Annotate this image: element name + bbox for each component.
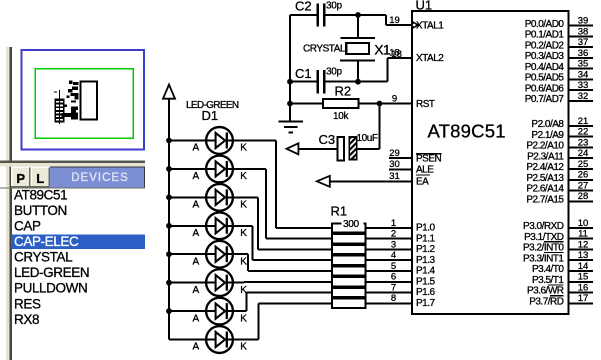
svg-text:38: 38 [578, 26, 589, 37]
svg-text:31: 31 [389, 171, 400, 182]
svg-text:P3.4/T0: P3.4/T0 [532, 264, 564, 275]
svg-text:12: 12 [578, 239, 589, 250]
svg-text:C3: C3 [319, 132, 336, 147]
svg-text:33: 33 [578, 80, 589, 91]
svg-text:P1.5: P1.5 [416, 276, 436, 287]
svg-text:11: 11 [578, 229, 588, 240]
svg-text:37: 37 [578, 37, 589, 48]
svg-text:LED-GREEN: LED-GREEN [14, 265, 89, 280]
svg-text:P1.1: P1.1 [416, 233, 436, 244]
svg-text:A: A [193, 285, 200, 296]
svg-text:RES: RES [14, 296, 41, 311]
svg-text:AT89C51: AT89C51 [14, 187, 67, 202]
svg-text:39: 39 [578, 16, 589, 27]
svg-text:A: A [193, 313, 200, 324]
svg-text:P3.1/TXD: P3.1/TXD [524, 232, 564, 243]
svg-text:XTAL1: XTAL1 [416, 20, 444, 31]
svg-text:CAP-ELEC: CAP-ELEC [14, 234, 79, 249]
svg-text:27: 27 [578, 180, 589, 191]
svg-text:DEVICES: DEVICES [71, 172, 129, 184]
svg-text:U1: U1 [416, 0, 433, 13]
svg-text:P0.1/AD1: P0.1/AD1 [525, 30, 565, 41]
svg-text:CRYSTAL: CRYSTAL [14, 250, 73, 265]
svg-text:R1: R1 [331, 204, 348, 219]
svg-text:K: K [240, 313, 247, 324]
svg-text:C1: C1 [295, 66, 312, 81]
svg-text:P2.3/A11: P2.3/A11 [527, 151, 564, 162]
svg-text:2: 2 [391, 229, 396, 240]
svg-text:25: 25 [578, 159, 589, 170]
svg-text:ALE: ALE [416, 165, 434, 176]
svg-text:P2.6/A14: P2.6/A14 [526, 184, 564, 195]
svg-text:CRYSTAL: CRYSTAL [303, 44, 346, 55]
svg-text:P3.0/RXD: P3.0/RXD [523, 221, 564, 232]
svg-text:4: 4 [391, 250, 396, 261]
svg-text:XTAL2: XTAL2 [416, 53, 444, 64]
svg-text:P0.7/AD7: P0.7/AD7 [525, 94, 565, 105]
svg-text:A: A [193, 143, 200, 154]
svg-text:A: A [193, 228, 200, 239]
svg-text:30p: 30p [326, 1, 343, 12]
svg-text:K: K [240, 171, 247, 182]
svg-text:P0.3/AD3: P0.3/AD3 [525, 51, 565, 62]
svg-text:23: 23 [578, 137, 589, 148]
svg-text:P0.4/AD4: P0.4/AD4 [525, 62, 565, 73]
svg-text:300: 300 [343, 219, 360, 230]
svg-text:22: 22 [578, 127, 589, 138]
svg-text:15: 15 [578, 272, 589, 283]
svg-text:1: 1 [391, 218, 396, 229]
svg-text:18: 18 [389, 48, 400, 59]
svg-text:P0.0/AD0: P0.0/AD0 [525, 19, 565, 30]
svg-text:P0.6/AD6: P0.6/AD6 [525, 83, 565, 94]
svg-text:34: 34 [578, 69, 589, 80]
svg-text:10uF: 10uF [357, 133, 378, 144]
svg-text:6: 6 [391, 272, 396, 283]
svg-text:R2: R2 [335, 83, 352, 98]
svg-text:36: 36 [578, 48, 589, 59]
svg-text:C2: C2 [295, 0, 312, 13]
svg-text:P3.5/T1: P3.5/T1 [532, 275, 564, 286]
svg-text:D1: D1 [202, 108, 219, 123]
svg-text:35: 35 [578, 59, 589, 70]
svg-text:BUTTON: BUTTON [14, 203, 67, 218]
svg-text:9: 9 [392, 93, 397, 104]
svg-text:EA: EA [416, 177, 429, 188]
svg-text:17: 17 [578, 293, 589, 304]
svg-text:P2.2/A10: P2.2/A10 [526, 141, 564, 152]
svg-text:P1.6: P1.6 [416, 287, 436, 298]
svg-text:P2.1/A9: P2.1/A9 [531, 130, 564, 141]
svg-text:P1.0: P1.0 [416, 223, 436, 234]
svg-text:P3.2/INT0: P3.2/INT0 [523, 243, 564, 254]
svg-text:8: 8 [391, 293, 396, 304]
svg-text:10k: 10k [333, 111, 350, 122]
svg-text:RX8: RX8 [14, 312, 39, 327]
svg-text:K: K [240, 228, 247, 239]
svg-text:K: K [240, 200, 247, 211]
svg-text:P3.6/WR: P3.6/WR [527, 286, 564, 297]
svg-text:P2.7/A15: P2.7/A15 [526, 194, 564, 205]
svg-text:16: 16 [578, 282, 589, 293]
svg-text:PULLDOWN: PULLDOWN [14, 281, 87, 296]
svg-text:10: 10 [578, 218, 589, 229]
svg-text:P3.3/INT1: P3.3/INT1 [523, 253, 564, 264]
svg-text:29: 29 [389, 148, 400, 159]
svg-text:P1.2: P1.2 [416, 244, 436, 255]
svg-text:13: 13 [578, 250, 589, 261]
svg-text:K: K [240, 143, 247, 154]
svg-text:P1.3: P1.3 [416, 255, 436, 266]
svg-text:7: 7 [391, 282, 396, 293]
svg-text:L: L [36, 171, 44, 186]
svg-text:5: 5 [391, 261, 396, 272]
svg-text:P0.2/AD2: P0.2/AD2 [525, 40, 565, 51]
svg-text:14: 14 [578, 261, 589, 272]
svg-text:AT89C51: AT89C51 [428, 121, 506, 142]
svg-text:A: A [193, 171, 200, 182]
svg-text:24: 24 [578, 148, 589, 159]
svg-text:A: A [193, 256, 200, 267]
svg-text:21: 21 [578, 116, 589, 127]
svg-text:P0.5/AD5: P0.5/AD5 [525, 73, 565, 84]
svg-text:26: 26 [578, 170, 589, 181]
svg-text:PSEN: PSEN [416, 153, 442, 164]
svg-text:P2.4/A12: P2.4/A12 [526, 162, 564, 173]
svg-text:P: P [16, 171, 25, 186]
svg-text:P2.0/A8: P2.0/A8 [531, 119, 564, 130]
svg-text:K: K [240, 342, 247, 353]
svg-text:30: 30 [389, 159, 400, 170]
svg-text:3: 3 [391, 239, 396, 250]
svg-text:19: 19 [389, 15, 400, 26]
svg-text:A: A [193, 342, 200, 353]
svg-text:K: K [240, 256, 247, 267]
svg-text:P1.4: P1.4 [416, 266, 436, 277]
svg-text:P1.7: P1.7 [416, 298, 436, 309]
svg-text:A: A [193, 200, 200, 211]
svg-text:CAP: CAP [14, 219, 41, 234]
svg-text:RST: RST [416, 99, 435, 110]
svg-text:28: 28 [578, 191, 589, 202]
svg-text:32: 32 [578, 91, 589, 102]
svg-text:30p: 30p [326, 66, 343, 77]
svg-text:P3.7/RD: P3.7/RD [529, 296, 564, 307]
svg-text:P2.5/A13: P2.5/A13 [526, 173, 564, 184]
